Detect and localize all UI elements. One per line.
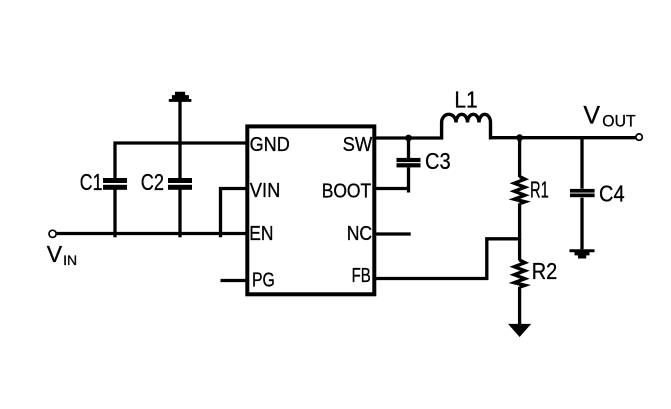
- svg-text:V: V: [47, 241, 63, 267]
- svg-text:IN: IN: [63, 252, 77, 268]
- svg-text:R2: R2: [532, 258, 558, 284]
- inductor L1: [442, 114, 491, 139]
- svg-text:PG: PG: [252, 269, 275, 291]
- wire: top rail C1 to GND pin: [114, 141, 248, 144]
- svg-text:C2: C2: [141, 169, 164, 195]
- wire: input rail VIN terminal to EN pin: [56, 232, 247, 235]
- svg-text:C1: C1: [80, 169, 103, 195]
- svg-text:EN: EN: [249, 223, 273, 245]
- ground (earth bars, below C4): [570, 249, 595, 258]
- wire: NC stub: [374, 232, 410, 235]
- node SW junction dot: [405, 135, 412, 142]
- svg-text:SW: SW: [343, 134, 373, 156]
- wire: output rail: [491, 136, 636, 139]
- terminal VOUT (open circle): [636, 134, 642, 140]
- wire: PG stub: [221, 279, 248, 282]
- resistor R1: [518, 138, 521, 177]
- node output junction dot: [516, 134, 523, 141]
- capacitor C3: [407, 138, 410, 158]
- svg-text:V: V: [583, 102, 600, 130]
- ground (triangle, below R2): [508, 324, 531, 337]
- svg-text:R1: R1: [530, 176, 549, 202]
- wire: SW stub: [374, 136, 443, 139]
- svg-text:GND: GND: [250, 134, 290, 156]
- ground (earth bars, above C2): [169, 92, 192, 102]
- svg-text:FB: FB: [352, 265, 371, 287]
- svg-text:OUT: OUT: [602, 112, 635, 131]
- wire: VIN pin connector: [221, 189, 248, 238]
- resistor R2: [518, 239, 521, 261]
- svg-text:C3: C3: [425, 148, 451, 174]
- IC U1 (regulator body): [247, 126, 374, 294]
- wire: BOOT stub: [374, 187, 410, 190]
- capacitor C4: [580, 138, 583, 189]
- svg-text:VIN: VIN: [250, 180, 281, 202]
- svg-text:BOOT: BOOT: [322, 181, 372, 203]
- svg-text:C4: C4: [599, 181, 625, 207]
- svg-text:NC: NC: [347, 223, 372, 245]
- svg-text:L1: L1: [454, 86, 477, 112]
- wire: FB to divider: [374, 239, 519, 279]
- terminal VIN (open circle): [49, 230, 56, 237]
- capacitor C1: [113, 142, 116, 179]
- capacitor C2: [178, 101, 181, 179]
